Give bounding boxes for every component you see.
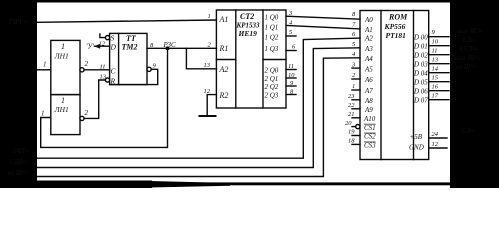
- svg-text:1: 1: [43, 61, 47, 69]
- wire counter 2Q0 pin 11 stub: [286, 69, 296, 71]
- svg-text:D 03: D 03: [413, 61, 428, 69]
- svg-text:16: 16: [432, 84, 439, 91]
- svg-text:11: 11: [432, 48, 438, 55]
- svg-text:R: R: [110, 77, 116, 86]
- inverter DD1.1 ЛН1 box: [51, 40, 80, 94]
- inversion circle DD1.1 output: [80, 68, 84, 72]
- faint margin annotations: [8, 18, 483, 177]
- wire DD1.1 output to TT C input pin 11: [84, 69, 110, 71]
- svg-text:вых КС≈: вых КС≈: [457, 27, 483, 35]
- wire bus3 riser to ROM A4 pin 4: [37, 58, 360, 177]
- svg-text:18: 18: [348, 138, 355, 145]
- svg-text:А6: А6: [364, 76, 373, 84]
- svg-text:2 Q1: 2 Q1: [265, 75, 279, 83]
- svg-text:ЛН1: ЛН1: [54, 105, 69, 114]
- wire branch Q to counter A2 pin 13: [186, 48, 216, 69]
- svg-text:CS1: CS1: [364, 124, 376, 132]
- inversion circle TT Qbar pin 9: [147, 67, 151, 71]
- svg-text:А10: А10: [363, 115, 376, 123]
- wire ROM D03 pin 13: [429, 63, 449, 65]
- svg-text:А2: А2: [364, 34, 373, 42]
- wire ROM D05 pin 15: [429, 81, 449, 83]
- svg-text:А4: А4: [364, 55, 373, 63]
- wire ROM A7 pin 1 stub: [352, 89, 360, 91]
- svg-text:СТ2: СТ2: [240, 12, 254, 21]
- svg-text:12: 12: [432, 141, 439, 148]
- svg-text:13: 13: [204, 62, 211, 69]
- counter right field divider: [262, 10, 264, 108]
- ROM right field divider: [413, 11, 415, 160]
- svg-text:D 02: D 02: [413, 52, 428, 60]
- counter left field divider: [235, 10, 237, 108]
- wire DD1.2 input from feedback line: [41, 48, 168, 147]
- svg-text:2: 2: [85, 60, 89, 68]
- wire ROM D07 pin 17: [429, 99, 449, 101]
- svg-text:А3: А3: [364, 45, 373, 53]
- wire ROM D01 pin 10: [429, 45, 449, 47]
- svg-text:1: 1: [208, 13, 211, 20]
- wire ROM D04 pin 14: [429, 72, 449, 74]
- svg-text:РТ181: РТ181: [386, 31, 406, 40]
- wire ROM CS2 pin 19 stub: [352, 135, 360, 137]
- svg-text:А9: А9: [364, 106, 373, 114]
- svg-text:ГВЧ ≈: ГВЧ ≈: [8, 18, 27, 26]
- svg-text:'У': 'У': [86, 43, 94, 51]
- svg-text:21: 21: [348, 111, 355, 118]
- svg-text:23: 23: [348, 93, 355, 100]
- svg-text:2: 2: [85, 109, 89, 117]
- svg-text:R2: R2: [219, 91, 229, 100]
- svg-text:А2: А2: [219, 65, 229, 74]
- wire counter 2Q2 pin 9 stub: [286, 85, 296, 87]
- svg-text:20: 20: [345, 120, 352, 127]
- wire ROM D00 pin 9: [429, 36, 449, 38]
- svg-text:D 07: D 07: [413, 97, 428, 105]
- svg-text:17: 17: [432, 93, 439, 100]
- svg-text:22: 22: [348, 102, 355, 109]
- svg-text:ТМ2: ТМ2: [122, 43, 138, 52]
- wire counter 1Q3 pin 6 stub: [286, 50, 296, 52]
- svg-text:1 Q3: 1 Q3: [265, 45, 279, 53]
- svg-text:CS2: CS2: [364, 133, 376, 141]
- inversion circle DD1.2 output: [80, 116, 84, 120]
- wire TT S stub: [100, 34, 106, 38]
- svg-text:ССУ≈: ССУ≈: [460, 45, 478, 53]
- counter CT2 КР1533 ИЕ19 box: [216, 10, 286, 108]
- wire TT Q output pin 8 to counter R1: [147, 47, 216, 49]
- junction dot node РЗС: [166, 47, 169, 50]
- wire TT Qbar stub under box: [110, 69, 158, 84]
- svg-text:24: 24: [432, 131, 439, 138]
- wire TT D input with off-page arrow У: [95, 45, 110, 47]
- svg-text:D 06: D 06: [413, 88, 428, 96]
- wire ROM +5В pin 24: [429, 137, 447, 139]
- wire input to DD1.1: [37, 69, 51, 71]
- ROM КР556 РТ181 box: [360, 11, 429, 160]
- svg-text:ИЕ19: ИЕ19: [238, 29, 258, 38]
- svg-text:19: 19: [348, 129, 355, 136]
- right border band: [450, 0, 499, 188]
- wire ROM A10 pin 21 stub: [352, 117, 360, 119]
- svg-text:РЗС: РЗС: [163, 41, 177, 49]
- wire ROM CS3 pin 18 stub: [352, 143, 360, 145]
- top border bar: [0, 0, 499, 3]
- bottom border thin line right part: [152, 182, 452, 185]
- wire ROM A6 pin 2 stub: [352, 78, 360, 80]
- svg-text:14: 14: [432, 66, 439, 73]
- svg-text:СЗ≈: СЗ≈: [462, 127, 474, 135]
- wire ROM D06 pin 16: [429, 90, 449, 92]
- svg-text:А1: А1: [219, 15, 229, 24]
- scan border black margins: [0, 0, 499, 188]
- wire ГВЧ input to counter A1: [37, 20, 216, 22]
- svg-text:10: 10: [288, 72, 295, 79]
- wire counter 2Q1 pin 10 stub: [286, 77, 296, 79]
- wire bus1 riser to ROM A2 pin 6: [37, 38, 360, 158]
- inversion circle TT R input: [105, 78, 109, 82]
- svg-text:GND: GND: [409, 144, 424, 152]
- ROM left field divider: [380, 11, 382, 160]
- svg-text:15: 15: [432, 75, 439, 82]
- svg-text:+5В: +5В: [410, 133, 423, 141]
- svg-text:2 Q0: 2 Q0: [265, 67, 279, 75]
- wire ROM A9 pin 22 stub: [352, 108, 360, 110]
- svg-text:1 Q1: 1 Q1: [265, 24, 279, 32]
- svg-text:2 Q2: 2 Q2: [265, 83, 279, 91]
- ground symbol: [200, 115, 216, 117]
- svg-text:1 Q2: 1 Q2: [265, 34, 279, 42]
- wire bus2 riser to ROM A3 pin 5: [37, 48, 360, 168]
- wire ROM A5 pin 3 stub: [352, 67, 360, 69]
- svg-text:А7: А7: [364, 87, 373, 95]
- svg-text:D 05: D 05: [413, 79, 428, 87]
- svg-text:11: 11: [100, 64, 106, 71]
- wire counter 2Q3 pin 8 stub: [286, 94, 296, 96]
- wire counter 1Q1 pin 4 to ROM A1 pin 7: [286, 25, 360, 29]
- svg-text:КР556: КР556: [384, 22, 406, 31]
- counter section divider right field: [263, 59, 286, 61]
- arrowhead У: [94, 44, 100, 49]
- inverter DD1.2 ЛН1 box: [51, 95, 80, 135]
- svg-text:13: 13: [100, 74, 107, 81]
- wire counter R2 to ground: [207, 95, 216, 116]
- counter section divider left field: [216, 59, 235, 61]
- flip-flop TT TM2 box: [110, 33, 147, 84]
- svg-text:А5: А5: [364, 65, 373, 73]
- svg-text:вх ВУ≈: вх ВУ≈: [456, 63, 476, 71]
- svg-text:13: 13: [432, 57, 439, 64]
- svg-text:СЗ≈: СЗ≈: [463, 36, 475, 44]
- wire ROM D02 pin 11: [429, 54, 449, 56]
- svg-text:D 00: D 00: [413, 34, 428, 42]
- left border band: [0, 0, 37, 188]
- wire counter 1Q2 pin 5 stub: [286, 35, 296, 37]
- svg-text:1 Q0: 1 Q0: [265, 14, 279, 22]
- svg-text:D: D: [110, 43, 117, 52]
- svg-text:1: 1: [61, 96, 65, 105]
- svg-text:D 04: D 04: [413, 70, 428, 78]
- svg-text:10: 10: [432, 39, 439, 46]
- svg-text:R1: R1: [219, 44, 229, 53]
- inversion circle TT S input: [105, 36, 109, 40]
- svg-text:1: 1: [61, 42, 65, 51]
- svg-text:S: S: [111, 34, 115, 43]
- svg-text:CS3: CS3: [364, 142, 376, 150]
- svg-text:ЗАП≈: ЗАП≈: [12, 147, 29, 155]
- svg-text:12: 12: [99, 41, 106, 48]
- wire DD1.2 output to R riser: [84, 80, 105, 118]
- svg-text:А1: А1: [364, 26, 373, 34]
- svg-text:ЛН1: ЛН1: [54, 52, 69, 61]
- wire ROM CS1 pin 20 stub: [352, 126, 356, 128]
- inversion circle ROM CS1: [356, 125, 360, 129]
- wire counter 1Q0 pin 3 to ROM A0 pin 8: [286, 16, 360, 19]
- svg-text:А8: А8: [364, 97, 373, 105]
- svg-text:вых ВУ≈: вых ВУ≈: [455, 54, 480, 62]
- svg-text:1: 1: [41, 110, 45, 118]
- TT pin-field divider: [118, 33, 120, 84]
- wire ROM GND pin 12: [429, 147, 447, 149]
- svg-text:А0: А0: [364, 16, 373, 24]
- svg-text:СДВ≈: СДВ≈: [10, 158, 27, 166]
- svg-text:12: 12: [204, 88, 211, 95]
- svg-text:2 Q3: 2 Q3: [265, 92, 279, 100]
- svg-text:ROM: ROM: [388, 13, 408, 22]
- svg-text:вх ВУ≈: вх ВУ≈: [8, 169, 28, 177]
- wire ROM A8 pin 23 stub: [352, 99, 360, 101]
- svg-text:1: 1: [352, 83, 355, 90]
- svg-text:11: 11: [288, 63, 294, 70]
- bottom border bar left thick part: [0, 181, 230, 189]
- svg-text:D 01: D 01: [413, 43, 428, 51]
